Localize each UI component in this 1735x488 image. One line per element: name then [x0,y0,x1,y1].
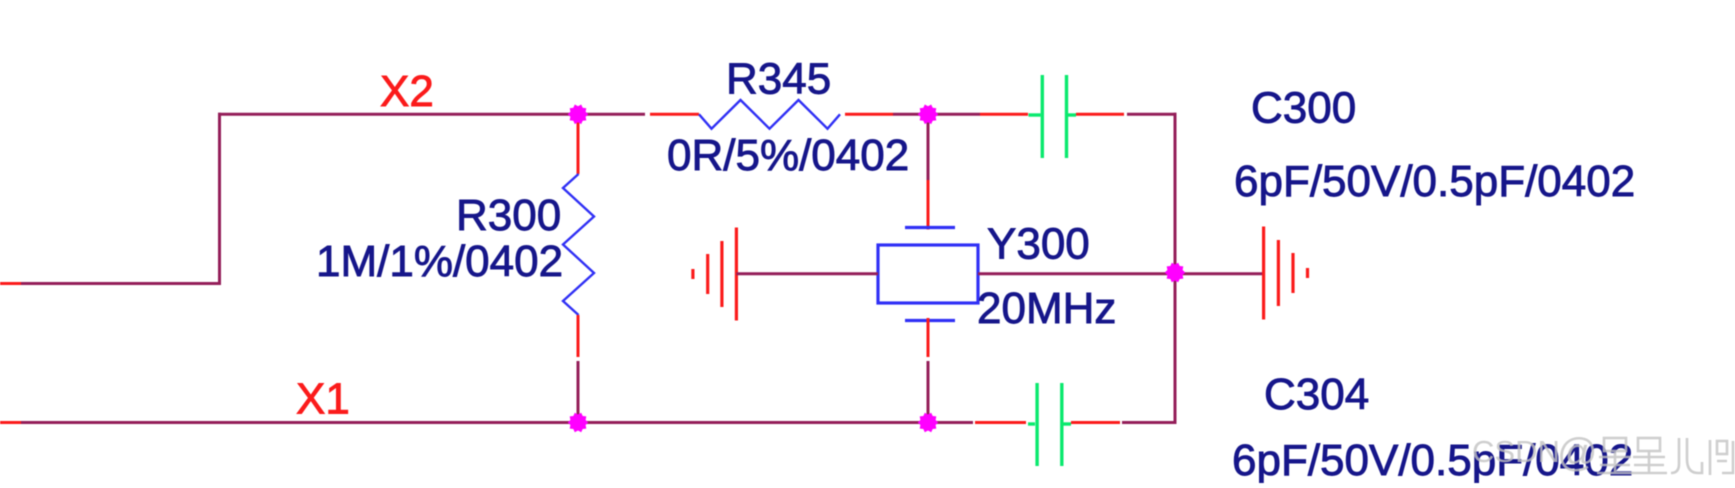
wire: C300 left pin stub (red) [980,113,1028,116]
svg-text:X1: X1 [296,375,350,424]
wire: left ground to Y300 [736,272,878,275]
watermark CSDN [1472,431,1733,475]
crystal Y300 body [878,245,978,303]
wire: node C to right ground [1175,272,1264,275]
crystal Y300 bottom plate [905,319,955,322]
wire: node B to C300 [928,113,980,116]
watermark CJK glyph 1 [1597,438,1633,473]
svg-text:C304: C304 [1264,370,1369,419]
svg-text:0R/5%/0402: 0R/5%/0402 [667,131,909,180]
wire: R345 left pin stub (red) [650,113,699,116]
wire: bottom rail X1 [21,421,973,424]
svg-text:20MHz: 20MHz [977,284,1116,333]
capacitor C304 [1028,383,1071,466]
wire: Y300 bottom pin stub (red) [927,318,930,357]
ground: right earth symbol [1264,227,1308,320]
wire: right vertical rail [1174,113,1177,424]
wire: X2 net horizontal from left edge [21,282,221,285]
junction node C [1165,263,1186,283]
wire: top rail X2 to node A [218,113,578,116]
junction node B bottom [918,413,939,433]
wire: C304 left pin stub (red) [975,421,1026,424]
capacitor C300 [1029,75,1077,158]
wire: R300 top pin stub (red) [577,116,580,174]
resistor R345 [699,100,840,129]
wire: C304 to right rail [1122,421,1177,424]
watermark CJK glyph 3 [1671,438,1702,473]
resistor R300 [563,174,594,315]
wire: X2 net left stub (red tip) [0,282,21,285]
junction node A top [568,105,589,125]
svg-text:CSDN: CSDN [1472,434,1560,469]
wire: C304 right pin stub (red) [1071,421,1120,424]
svg-text:1M/1%/0402: 1M/1%/0402 [316,237,563,286]
wire: R345 right pin stub (red) [845,113,893,116]
svg-text:Y300: Y300 [987,220,1090,269]
wire: Y300 to node C [978,272,1175,275]
wire: C300 to right rail [1127,113,1177,116]
wire: R300 bottom pin stub (red) [577,315,580,357]
wire: R300 to bottom rail [577,361,580,423]
svg-text:R345: R345 [726,55,831,104]
junction node B top [918,105,939,125]
svg-text:@: @ [1557,431,1598,475]
wire: X1 net left stub (red tip) [0,421,21,424]
ground: left earth symbol [693,228,737,321]
watermark CJK glyph 4 [1710,440,1733,475]
wire: C300 right pin stub (red) [1076,113,1124,116]
svg-text:R300: R300 [456,191,561,240]
junction node A bottom [568,413,589,433]
svg-text:X2: X2 [380,67,434,116]
crystal Y300 top plate [905,226,955,229]
wire: R345 to node B [893,113,928,116]
watermark CJK glyph 2 [1631,438,1667,473]
wire: node A to R345 lead [578,113,645,116]
wire: Y300 top pin stub (red) [927,180,930,230]
svg-text:C300: C300 [1251,84,1356,133]
wire: node B down to Y300 [927,114,930,180]
wire: X2 net vertical riser [218,113,221,284]
wire: Y300 to bottom rail [927,361,930,423]
svg-text:6pF/50V/0.5pF/0402: 6pF/50V/0.5pF/0402 [1234,157,1635,206]
